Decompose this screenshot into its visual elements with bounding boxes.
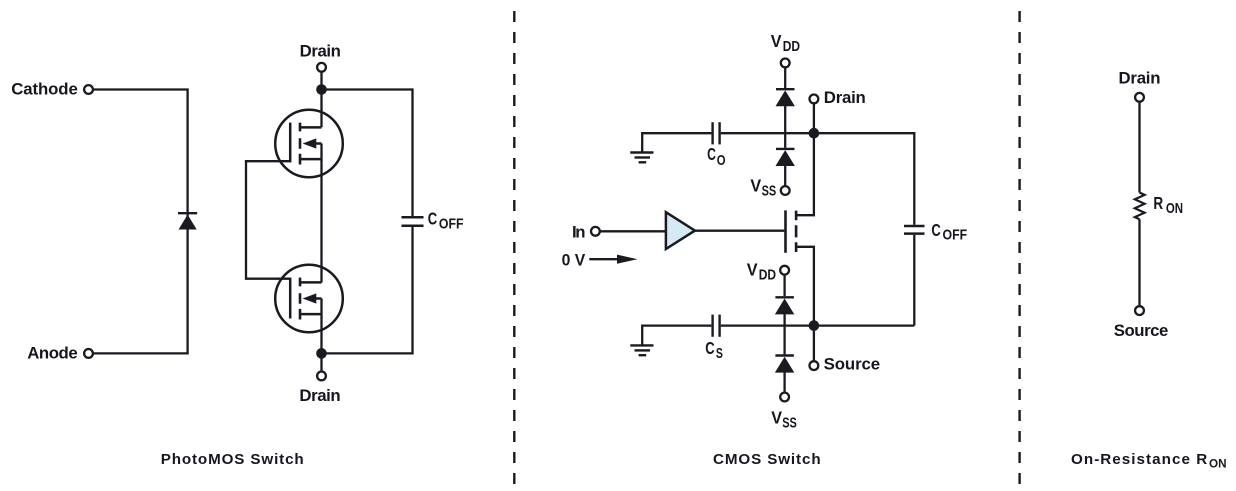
svg-text:V: V: [771, 31, 782, 51]
svg-text:PhotoMOS Switch: PhotoMOS Switch: [161, 451, 304, 468]
svg-text:DD: DD: [783, 38, 800, 55]
svg-text:SS: SS: [762, 183, 777, 200]
svg-text:ON: ON: [1166, 200, 1183, 217]
svg-text:Cathode: Cathode: [11, 79, 78, 98]
svg-text:OFF: OFF: [943, 227, 968, 244]
svg-text:V: V: [750, 176, 761, 196]
svg-text:Drain: Drain: [300, 42, 341, 61]
svg-text:Source: Source: [1114, 321, 1169, 340]
svg-text:C: C: [705, 338, 715, 358]
svg-text:Source: Source: [824, 355, 881, 374]
svg-text:S: S: [716, 345, 723, 362]
svg-text:R: R: [1153, 193, 1163, 213]
svg-text:CMOS Switch: CMOS Switch: [713, 451, 821, 468]
svg-text:DD: DD: [759, 267, 776, 284]
svg-text:Drain: Drain: [1119, 69, 1161, 88]
svg-text:C: C: [428, 209, 438, 229]
svg-text:V: V: [771, 408, 782, 428]
svg-text:Anode: Anode: [27, 343, 77, 362]
svg-text:V: V: [747, 260, 758, 280]
svg-text:OFF: OFF: [439, 216, 464, 233]
svg-text:C: C: [931, 220, 941, 240]
svg-text:O: O: [717, 152, 726, 169]
svg-text:SS: SS: [782, 415, 797, 432]
svg-text:ON: ON: [1209, 456, 1227, 470]
svg-text:Drain: Drain: [824, 88, 866, 107]
svg-text:0 V: 0 V: [562, 250, 586, 269]
svg-text:C: C: [707, 144, 716, 164]
svg-text:In: In: [572, 223, 586, 242]
svg-text:Drain: Drain: [299, 386, 340, 405]
svg-text:On-Resistance R: On-Resistance R: [1071, 451, 1207, 468]
